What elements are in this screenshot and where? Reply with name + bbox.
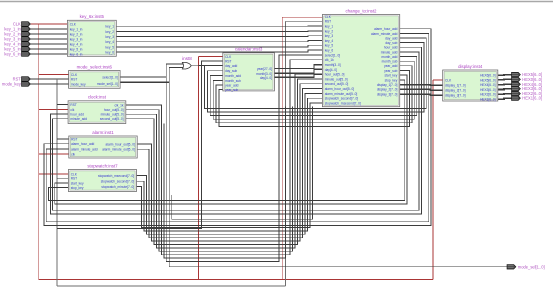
svg-text:stopwatch_second[7..0]: stopwatch_second[7..0]: [101, 180, 135, 184]
svg-text:display_3[7..0]: display_3[7..0]: [445, 94, 466, 98]
wire month_sub change_to to calendar: [213, 61, 414, 119]
svg-text:key_6: key_6: [325, 49, 334, 53]
svg-text:HEX2[6..0]: HEX2[6..0]: [480, 93, 496, 97]
svg-text:calendar:inst3: calendar:inst3: [235, 47, 263, 52]
output pin mode_sel: [507, 264, 545, 269]
svg-text:key_2_in: key_2_in: [70, 32, 83, 36]
svg-text:month[3..0]: month[3..0]: [325, 63, 341, 67]
wire second_out feedback loop: [126, 79, 323, 245]
wire year_add change_to to calendar: [216, 66, 412, 123]
wire mode_sel to output pin: [169, 82, 507, 267]
svg-text:display_3[7..0]: display_3[7..0]: [377, 92, 398, 96]
svg-text:HEX5[6..0]: HEX5[6..0]: [480, 78, 496, 82]
svg-text:HEX4[6..0]: HEX4[6..0]: [480, 83, 496, 87]
module change_to U7: [322, 8, 399, 106]
wire bus d feedback loop: [172, 107, 313, 220]
svg-text:RST: RST: [71, 137, 77, 141]
wire CLK branch vertical change_to: [281, 17, 283, 279]
svg-text:stopwatch_msecond[7..0]: stopwatch_msecond[7..0]: [325, 101, 361, 105]
svg-text:key_5: key_5: [325, 44, 334, 48]
svg-text:hour_add: hour_add: [70, 112, 84, 116]
wire RST bottom horizontal: [57, 285, 285, 287]
svg-text:key_4: key_4: [105, 40, 114, 44]
svg-text:clk: clk: [71, 152, 75, 156]
wire day_sub change_to to calendar: [207, 43, 424, 113]
svg-text:day_add: day_add: [385, 37, 397, 41]
bus select from mode_select: [120, 76, 166, 78]
svg-text:display_2[7..0]: display_2[7..0]: [377, 88, 398, 92]
svg-text:HEX1[6..0]: HEX1[6..0]: [480, 98, 496, 102]
svg-text:alarm:inst1: alarm:inst1: [92, 130, 114, 135]
svg-text:stopwatch_second[7..0]: stopwatch_second[7..0]: [325, 97, 359, 101]
svg-text:key_2: key_2: [325, 29, 334, 33]
bus display_1 to display: [400, 84, 443, 87]
svg-text:day[4..0]: day[4..0]: [325, 68, 337, 72]
wire year_sub change_to to calendar: [219, 70, 410, 126]
svg-text:stopwatch_msecond[7..0]: stopwatch_msecond[7..0]: [98, 174, 134, 178]
svg-text:display_1[7..0]: display_1[7..0]: [445, 84, 466, 88]
wire hour_out feedback loop: [126, 107, 293, 252]
wire HEX4 to output pin: [498, 83, 512, 85]
wire key_4 to change_to: [116, 41, 322, 42]
svg-text:clock:inst: clock:inst: [88, 95, 107, 100]
wire CLK to stopwatch: [39, 173, 69, 175]
wire stop_key change_to to left block: [48, 80, 404, 201]
svg-text:CLK: CLK: [70, 22, 77, 26]
output pin HEX2[6..0]: [512, 91, 543, 96]
svg-text:month_add: month_add: [225, 74, 241, 78]
wire HEX3 to output pin: [498, 88, 512, 91]
input pin key_3_in: [4, 37, 30, 42]
svg-text:change_to:inst2: change_to:inst2: [345, 8, 377, 13]
svg-text:key_6: key_6: [105, 50, 114, 54]
wire RST vertical: [56, 79, 58, 286]
wire month_add change_to to calendar: [210, 57, 416, 116]
wire CLK pin to key_6x: [30, 23, 67, 25]
wire key_1_in pin to key_6x: [30, 28, 67, 30]
svg-text:key_6x:inst5: key_6x:inst5: [80, 14, 105, 19]
top window border: [0, 1, 553, 3]
svg-text:RST: RST: [71, 177, 77, 181]
wire key_4_in pin to key_6x: [30, 43, 67, 45]
wire RST pin to mode_select: [30, 78, 68, 80]
svg-text:month_sub: month_sub: [382, 60, 398, 64]
svg-text:hour_out[5..0]: hour_out[5..0]: [325, 73, 345, 77]
wire calendar output 2 to change_to: [274, 69, 322, 73]
svg-text:minute_add: minute_add: [70, 117, 87, 121]
wire HEX6 to output pin: [498, 74, 512, 77]
output pin HEX4[6..0]: [512, 82, 543, 87]
svg-text:minute_out[5..0]: minute_out[5..0]: [325, 77, 348, 81]
svg-text:mode_sel[1..0]: mode_sel[1..0]: [518, 264, 545, 269]
svg-text:mode_key: mode_key: [71, 82, 86, 86]
wire select to change_to feedback loop: [166, 55, 322, 262]
svg-text:year[27..0]: year[27..0]: [257, 67, 272, 71]
svg-text:RST: RST: [325, 20, 331, 24]
svg-text:alarm_minute_out[5..0]: alarm_minute_out[5..0]: [102, 148, 135, 152]
svg-text:HEX6[6..0]: HEX6[6..0]: [480, 74, 496, 78]
svg-text:alarm_hour_add: alarm_hour_add: [374, 27, 397, 31]
wire alarm_minute_out feedback loop: [137, 89, 322, 238]
wire minute_add change_to to left block: [53, 52, 420, 210]
svg-text:start_key: start_key: [71, 182, 84, 186]
svg-text:mode_key: mode_key: [2, 82, 22, 87]
wire gate input b from mode_sel: [169, 68, 183, 83]
wire CLK main vertical: [38, 24, 40, 279]
svg-text:hour_add: hour_add: [384, 46, 398, 50]
input pin mode_key: [2, 82, 30, 87]
svg-text:alarm_hour_out[5..0]: alarm_hour_out[5..0]: [105, 143, 135, 147]
svg-text:alarm_hour_out[5..0]: alarm_hour_out[5..0]: [325, 87, 355, 91]
wire key_3_in pin to key_6x: [30, 38, 67, 40]
input pin key_1_in: [4, 27, 30, 32]
wire key_2_in pin to key_6x: [30, 33, 67, 35]
svg-text:stopwatch_minute[7..0]: stopwatch_minute[7..0]: [101, 185, 134, 189]
input pin CLK: [13, 22, 31, 27]
svg-text:HEX1[6..0]: HEX1[6..0]: [522, 96, 542, 101]
module mode_select U2: [69, 64, 121, 88]
input pin key_2_in: [4, 32, 30, 37]
wire RST to clock: [57, 104, 68, 106]
svg-text:display_2[7..0]: display_2[7..0]: [445, 88, 466, 92]
bus mode_sel from mode_select: [120, 81, 169, 83]
svg-text:CLK: CLK: [325, 15, 332, 19]
svg-text:mode_select:inst6: mode_select:inst6: [77, 64, 113, 69]
module calendar U6: [223, 47, 275, 92]
module alarm U4: [69, 130, 137, 158]
svg-text:display_1[7..0]: display_1[7..0]: [377, 83, 398, 87]
svg-text:clk_1k: clk_1k: [325, 58, 334, 62]
wire stopwatch_second feedback loop: [137, 98, 323, 231]
svg-text:key_5_in: key_5_in: [70, 47, 83, 51]
output pin HEX3[6..0]: [512, 86, 543, 91]
svg-text:key_3_in: key_3_in: [70, 37, 83, 41]
svg-text:alarm_hour_add: alarm_hour_add: [71, 142, 94, 146]
svg-text:stop_key: stop_key: [71, 186, 84, 190]
wire CLK branch vertical calendar: [197, 56, 199, 279]
svg-text:mode_sel[1..0]: mode_sel[1..0]: [97, 82, 118, 86]
wire RST to calendar: [57, 61, 223, 229]
svg-text:select[1..0]: select[1..0]: [102, 75, 118, 79]
wire day_add change_to to calendar: [205, 38, 427, 108]
svg-text:year_sub: year_sub: [225, 88, 238, 92]
input pin key_6_in: [4, 52, 30, 57]
wire key_1 to change_to: [116, 25, 322, 27]
svg-text:key_6_in: key_6_in: [4, 52, 21, 57]
svg-text:CLK: CLK: [445, 78, 452, 82]
output pin HEX5[6..0]: [512, 72, 543, 77]
module key_6x U1: [67, 14, 116, 56]
wire CLK to alarm: [39, 153, 69, 155]
svg-text:key_1_in: key_1_in: [70, 27, 83, 31]
wire bus c feedback loop: [164, 107, 286, 258]
wire key_6 to change_to: [116, 50, 322, 52]
svg-text:display:inst4: display:inst4: [458, 64, 483, 69]
wire key_5_in pin to key_6x: [30, 48, 67, 50]
svg-text:CLK: CLK: [225, 55, 232, 59]
wire HEX2 to output pin: [498, 93, 512, 96]
svg-text:second_out[5..0]: second_out[5..0]: [100, 117, 124, 121]
svg-text:minute_add: minute_add: [381, 50, 398, 54]
wire CLK to change_to: [282, 16, 322, 18]
wire CLK into display: [433, 79, 443, 81]
svg-text:alarm_minute_add: alarm_minute_add: [371, 32, 398, 36]
svg-text:key_2: key_2: [105, 30, 114, 34]
wire gate input a from select: [166, 64, 183, 77]
svg-text:stopwatch:inst7: stopwatch:inst7: [87, 163, 118, 168]
wire mode_key pin to mode_select: [30, 83, 68, 85]
wire key_3 to change_to: [116, 35, 322, 38]
svg-text:alarm_minute_add: alarm_minute_add: [71, 147, 98, 151]
module clock U3: [68, 95, 126, 124]
wire calendar output 3 to change_to: [274, 74, 322, 77]
svg-text:alarm_minute_out[5..0]: alarm_minute_out[5..0]: [325, 92, 358, 96]
input pin key_4_in: [4, 42, 30, 47]
svg-text:clk: clk: [70, 108, 74, 112]
svg-text:minute_out[5..0]: minute_out[5..0]: [101, 113, 124, 117]
svg-text:key_3: key_3: [325, 34, 334, 38]
svg-text:day[4..0]: day[4..0]: [260, 76, 272, 80]
svg-text:year_add: year_add: [384, 64, 398, 68]
or-gate inst8: [182, 56, 192, 69]
svg-text:key_5: key_5: [105, 45, 114, 49]
output pin HEX1[6..0]: [512, 96, 543, 101]
wire alarm_hour_add change_to to left block: [44, 29, 431, 226]
wire RST to stopwatch: [57, 177, 68, 179]
svg-text:day_add: day_add: [225, 64, 237, 68]
wire stopwatch_msecond feedback loop: [137, 93, 323, 234]
wire CLK bottom horizontal: [39, 278, 433, 280]
svg-text:second_out[5..0]: second_out[5..0]: [325, 82, 349, 86]
wire start_key change_to to left block: [55, 75, 407, 204]
bus display_2 to display: [400, 88, 443, 91]
wire clk_1k feedback loop: [126, 60, 323, 255]
svg-text:HEX3[6..0]: HEX3[6..0]: [480, 88, 496, 92]
svg-text:RST: RST: [71, 77, 77, 81]
bus display_3 to display: [400, 94, 443, 95]
svg-text:day_sub: day_sub: [225, 69, 237, 73]
svg-text:year_sub: year_sub: [384, 69, 397, 73]
wire RST vertical to change_to: [284, 21, 286, 286]
svg-text:day_sub: day_sub: [385, 41, 397, 45]
wire HEX1 to output pin: [498, 98, 512, 99]
svg-text:key_4_in: key_4_in: [70, 42, 83, 46]
svg-text:start_key: start_key: [384, 74, 397, 78]
wire key_2 to change_to: [116, 30, 322, 33]
wire CLK to mode_select: [39, 74, 69, 76]
svg-text:key_1: key_1: [325, 25, 334, 29]
wire RST to alarm: [57, 138, 69, 140]
wire alarm_minute_add change_to to left block: [46, 33, 429, 221]
module display U8: [443, 64, 498, 102]
wire gate output to calendar row: [191, 65, 223, 67]
svg-text:key_3: key_3: [105, 35, 114, 39]
wire calendar output 1 to change_to: [274, 65, 322, 69]
wire RST into change_to: [285, 20, 322, 22]
svg-text:select[1..0]: select[1..0]: [325, 53, 341, 57]
module stopwatch U5: [68, 163, 136, 191]
svg-text:hour_out[5..0]: hour_out[5..0]: [104, 108, 124, 112]
wire CLK right vertical: [432, 80, 434, 279]
svg-text:RST: RST: [225, 59, 231, 63]
wire CLK to calendar: [198, 55, 222, 57]
svg-text:stop_key: stop_key: [385, 78, 398, 82]
wire HEX5 to output pin: [498, 78, 512, 81]
svg-text:key_6_in: key_6_in: [70, 52, 83, 56]
wire stopwatch_minute feedback loop: [137, 103, 323, 228]
wire hour_add change_to to left block: [51, 47, 422, 214]
svg-text:key_4: key_4: [325, 39, 334, 43]
input pin key_5_in: [4, 47, 30, 52]
svg-text:RST: RST: [70, 103, 76, 107]
svg-text:month_sub: month_sub: [225, 79, 241, 83]
input pin RST: [13, 77, 31, 82]
wire key_6_in pin to key_6x: [30, 53, 67, 55]
svg-text:year_add: year_add: [225, 83, 239, 87]
svg-text:inst8: inst8: [182, 56, 192, 61]
wire key_5 to change_to: [116, 45, 322, 47]
wire alarm_hour_out feedback loop: [137, 84, 322, 241]
svg-text:month_add: month_add: [381, 55, 397, 59]
svg-text:clk_1k: clk_1k: [114, 103, 123, 107]
svg-text:key_1: key_1: [105, 25, 114, 29]
wire CLK to clock: [39, 108, 68, 110]
wire minute_out feedback loop: [126, 74, 323, 248]
output pin HEX0[6..0]: [512, 77, 543, 82]
